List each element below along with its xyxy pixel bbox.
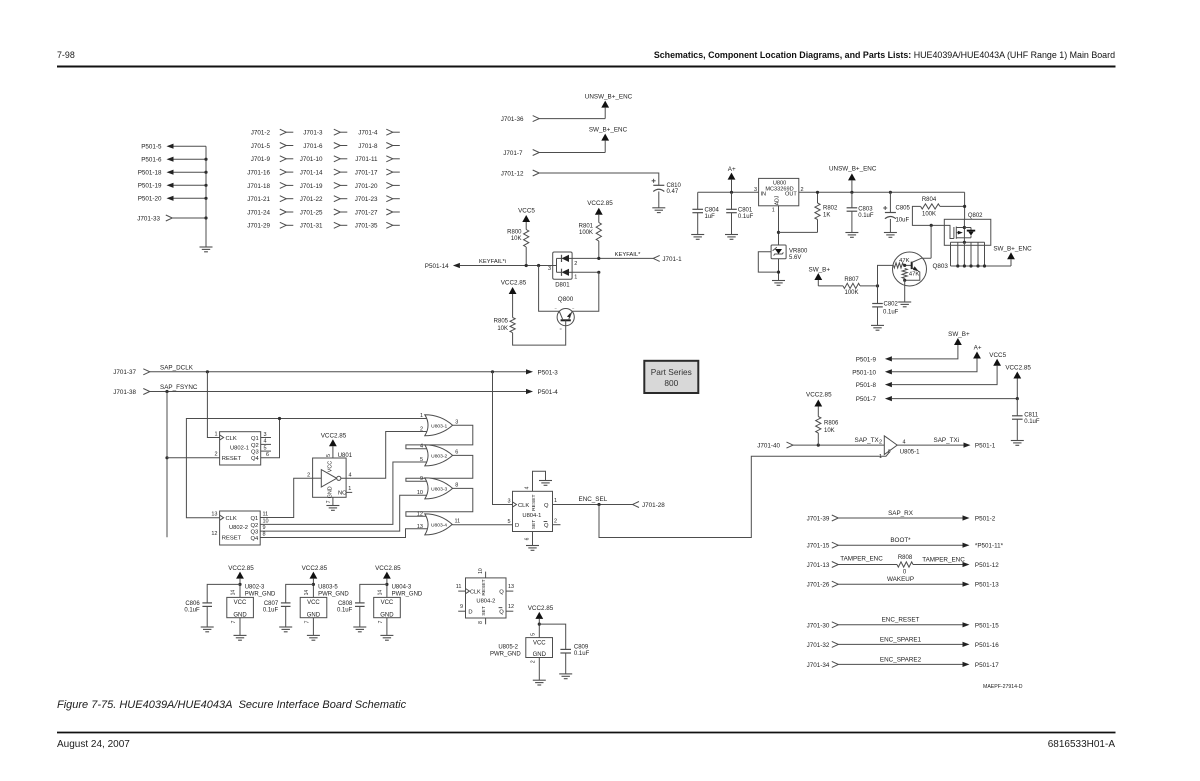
wire CLK riser	[207, 372, 219, 438]
connector J701-35	[355, 222, 400, 229]
wire U801 output to gate U803-1	[341, 432, 428, 479]
net TAMPER_ENC wire left	[838, 555, 897, 564]
ground	[201, 627, 214, 632]
svg-text:P501-8: P501-8	[856, 382, 877, 389]
connector J701-26	[807, 581, 839, 589]
connector J701-34	[807, 661, 839, 669]
svg-text:Q1: Q1	[251, 436, 259, 442]
power VCC2.85 for U803-5	[302, 565, 328, 598]
svg-text:12: 12	[508, 604, 514, 610]
svg-text:J701-18: J701-18	[247, 183, 270, 190]
svg-text:Q: Q	[544, 523, 549, 529]
wire Q3 to gate U803-3	[260, 495, 427, 531]
net ENC_SPARE2 wire	[838, 656, 962, 664]
IC U803-5 PWR_GND	[300, 585, 349, 636]
svg-text:14: 14	[377, 590, 383, 596]
capacitor C802 0.1uF	[872, 286, 898, 326]
svg-text:GND: GND	[233, 612, 247, 618]
connector P501-8 with VCC5	[856, 352, 1007, 389]
svg-text:2: 2	[307, 472, 310, 478]
svg-text:2: 2	[531, 660, 537, 663]
connector J701-15	[807, 542, 839, 550]
svg-text:J701-28: J701-28	[642, 502, 665, 509]
buffer U805-1	[879, 436, 920, 460]
transistor Q800	[555, 296, 576, 332]
svg-text:J701-15: J701-15	[807, 543, 830, 550]
svg-text:RESET: RESET	[222, 536, 242, 542]
ground	[691, 235, 704, 240]
svg-text:P501-13: P501-13	[975, 582, 999, 589]
svg-text:MAEPF-27914-D: MAEPF-27914-D	[983, 684, 1023, 690]
svg-text:3: 3	[455, 420, 458, 426]
svg-text:2: 2	[879, 439, 882, 445]
wire U801 ground pin	[326, 497, 333, 505]
svg-text:R801: R801	[579, 223, 594, 229]
svg-text:7-98: 7-98	[57, 50, 75, 60]
svg-text:J701-40: J701-40	[757, 443, 780, 450]
svg-text:PWR_GND: PWR_GND	[245, 591, 276, 597]
svg-text:5: 5	[420, 457, 423, 463]
power VCC2.85 for U804-3	[375, 565, 401, 598]
power VCC2.85	[806, 392, 832, 417]
svg-text:5: 5	[530, 633, 536, 636]
connector J701-25	[300, 209, 348, 216]
svg-text:0.47: 0.47	[667, 189, 679, 195]
svg-text:R806: R806	[824, 420, 839, 426]
connector P501-1	[964, 443, 996, 450]
svg-text:VCC5: VCC5	[518, 208, 535, 215]
ground	[845, 233, 858, 238]
connector J701-10	[300, 156, 348, 163]
wire ADJ pin	[778, 206, 780, 245]
svg-text:ENC_RESET: ENC_RESET	[882, 617, 920, 624]
junction	[491, 370, 494, 373]
connector P501-20	[138, 196, 206, 203]
svg-text:CLK: CLK	[470, 590, 481, 596]
svg-text:6: 6	[266, 452, 269, 458]
svg-text:U801: U801	[338, 453, 353, 459]
gate U803-3	[417, 476, 458, 499]
svg-text:VCC2.85: VCC2.85	[528, 605, 554, 612]
svg-text:TAMPER_ENC: TAMPER_ENC	[840, 555, 883, 562]
wire gate1 output loop to gate2	[406, 425, 473, 449]
svg-text:J701-6: J701-6	[303, 143, 323, 150]
power VCC5	[518, 208, 535, 230]
power UNSW_B+_ENC	[829, 165, 877, 192]
IC U805-2 PWR_GND	[490, 633, 552, 681]
svg-text:D: D	[515, 523, 519, 529]
power SW_B+_ENC	[993, 246, 1032, 266]
wire emitter of Q800	[513, 326, 566, 345]
connector P501-2	[963, 515, 996, 522]
svg-text:C804: C804	[705, 208, 720, 214]
svg-text:VCC2.85: VCC2.85	[321, 432, 347, 439]
svg-text:VCC2.85: VCC2.85	[501, 280, 527, 287]
wire Q4 feedback	[261, 419, 280, 458]
svg-text:R805: R805	[494, 318, 509, 324]
junction	[538, 623, 541, 626]
junction	[816, 191, 819, 194]
svg-text:D801: D801	[555, 283, 570, 289]
capacitor C801 0.1uF	[726, 192, 753, 234]
svg-text:Figure 7-75. HUE4039A/HUE4043A: Figure 7-75. HUE4039A/HUE4043A Secure In…	[57, 699, 407, 711]
svg-text:14: 14	[304, 590, 310, 596]
svg-text:1uF: 1uF	[705, 214, 716, 220]
connector J701-37	[113, 369, 150, 376]
transistor Q803 with bias resistors	[893, 252, 949, 302]
power SW_B+_ENC	[589, 126, 628, 152]
wire	[525, 247, 527, 266]
ground	[234, 635, 247, 640]
connector J701-32	[807, 641, 839, 649]
junction	[206, 370, 209, 373]
junction	[597, 503, 600, 506]
wire U804-1 reset pin to ground	[525, 471, 546, 491]
svg-text:R807: R807	[844, 277, 859, 283]
svg-text:6: 6	[525, 537, 531, 540]
svg-text:IN: IN	[761, 191, 767, 197]
svg-text:0.1uF: 0.1uF	[574, 651, 590, 657]
svg-text:VCC: VCC	[307, 600, 320, 606]
connector J701-1	[653, 255, 682, 263]
power VCC2.85	[587, 200, 613, 223]
resistor R808 0	[897, 555, 913, 576]
wire	[818, 285, 843, 287]
power SW_B+	[809, 266, 831, 286]
wire gate3 output loop to gate4	[406, 488, 473, 516]
connector P501-19	[138, 183, 206, 190]
svg-text:C806: C806	[185, 601, 200, 607]
svg-text:100K: 100K	[922, 212, 936, 218]
svg-text:VCC2.85: VCC2.85	[228, 565, 254, 572]
svg-text:P501-10: P501-10	[852, 369, 876, 376]
svg-text:VCC2.85: VCC2.85	[806, 392, 832, 399]
wire ENC_SEL route to U805-1 enable	[599, 452, 890, 538]
svg-text:*P501-11*: *P501-11*	[975, 543, 1004, 550]
drawing number MAEPF-27914-D	[983, 684, 1023, 690]
svg-text:GND: GND	[533, 652, 547, 658]
svg-text:GND: GND	[307, 612, 321, 618]
svg-text:KEYFAIL*i: KEYFAIL*i	[479, 259, 506, 265]
svg-text:0.1uF: 0.1uF	[263, 607, 279, 613]
svg-text:U803-4: U803-4	[431, 523, 447, 529]
svg-text:11: 11	[456, 584, 462, 590]
svg-text:Q: Q	[544, 503, 549, 509]
svg-text:0.1uF: 0.1uF	[184, 607, 200, 613]
svg-text:6816533H01-A: 6816533H01-A	[1048, 739, 1116, 750]
capacitor C811 0.1uF	[1012, 399, 1040, 441]
svg-text:OUT: OUT	[785, 191, 797, 197]
svg-text:4: 4	[264, 439, 267, 445]
svg-text:13: 13	[417, 524, 423, 530]
svg-text:4: 4	[349, 472, 352, 478]
svg-text:J701-30: J701-30	[807, 622, 830, 629]
connector J701-16	[247, 169, 293, 176]
connector J701-11	[355, 156, 400, 163]
svg-text:RESET: RESET	[222, 456, 242, 462]
svg-text:C807: C807	[264, 601, 279, 607]
note box Part Series 800	[644, 361, 698, 393]
connector J701-14	[300, 169, 348, 176]
wire R804 left leg	[912, 206, 944, 225]
svg-text:VCC: VCC	[381, 600, 394, 606]
svg-text:7: 7	[305, 620, 311, 623]
IC U801 inverter	[307, 453, 353, 498]
junction	[597, 271, 600, 274]
svg-text:P501-5: P501-5	[141, 144, 162, 151]
wire output SAP_TXi	[897, 437, 963, 445]
svg-text:7: 7	[231, 620, 237, 623]
connector J701-28	[633, 502, 666, 510]
svg-text:ENC_SPARE2: ENC_SPARE2	[880, 656, 922, 663]
gate U803-1	[420, 413, 458, 436]
svg-text:SET: SET	[531, 520, 537, 530]
capacitor C807 0.1uF	[263, 584, 314, 627]
connector J701-31	[300, 222, 348, 229]
wire	[778, 259, 780, 281]
svg-text:U804-3: U804-3	[392, 585, 412, 591]
svg-text:4: 4	[420, 444, 423, 450]
connector J701-39	[807, 515, 839, 523]
svg-text:VCC: VCC	[234, 600, 247, 606]
svg-text:5: 5	[507, 519, 510, 525]
svg-text:P501-14: P501-14	[425, 263, 449, 270]
svg-text:J701-8: J701-8	[358, 143, 378, 150]
svg-text:J701-27: J701-27	[355, 209, 378, 216]
svg-text:U802-1: U802-1	[230, 445, 249, 451]
svg-text:KEYFAIL*: KEYFAIL*	[615, 252, 642, 258]
svg-text:J701-33: J701-33	[137, 215, 160, 222]
wire Q4 to gate U803-4	[260, 529, 427, 538]
svg-text:9: 9	[420, 476, 423, 482]
connector P501-3	[526, 369, 558, 376]
svg-text:VCC2.85: VCC2.85	[375, 565, 401, 572]
wire DCLK riser to U804-1 clock	[493, 372, 513, 505]
wire gate2 output loop to gate3	[406, 455, 473, 481]
connector J701-22	[300, 196, 348, 203]
header rule	[57, 66, 1116, 68]
svg-text:J701-21: J701-21	[247, 196, 270, 203]
capacitor C803 0.1uF	[847, 192, 874, 232]
footer rule	[57, 732, 1116, 734]
svg-text:47K: 47K	[909, 272, 919, 278]
svg-text:J701-7: J701-7	[503, 150, 523, 157]
capacitor C806 0.1uF	[184, 584, 240, 627]
svg-text:11: 11	[455, 519, 461, 525]
net KEYFAIL* wire to J701-1	[572, 252, 653, 258]
junction	[930, 224, 933, 227]
svg-text:11: 11	[263, 512, 269, 518]
svg-text:8: 8	[478, 621, 484, 624]
capacitor C804 1uF	[692, 192, 719, 234]
svg-text:A+: A+	[974, 345, 982, 352]
svg-text:A+: A+	[728, 166, 736, 173]
ground	[353, 627, 366, 632]
IC U802-3 PWR_GND	[227, 585, 276, 636]
svg-text:J701-36: J701-36	[501, 116, 524, 123]
svg-text:Q4: Q4	[251, 456, 260, 462]
resistor R800 10K	[507, 229, 529, 247]
svg-text:Q802: Q802	[968, 213, 983, 219]
svg-text:1: 1	[574, 275, 577, 281]
svg-text:5: 5	[326, 454, 332, 457]
junction	[777, 231, 780, 234]
connector J701-19	[300, 182, 348, 189]
svg-text:Schematics, Component Location: Schematics, Component Location Diagrams,…	[654, 50, 1115, 60]
ground	[884, 233, 897, 238]
connector J701-21	[247, 196, 293, 203]
svg-text:J701-32: J701-32	[807, 642, 830, 649]
regulator U800 MC33269D	[754, 178, 804, 213]
wire ADJ to R802	[779, 231, 818, 233]
connector J701-6	[303, 143, 347, 150]
svg-text:RESET: RESET	[531, 495, 537, 511]
wire U804-1 set pin to ground	[525, 532, 533, 546]
net ENC_RESET wire	[838, 617, 962, 625]
resistor R804 100K	[921, 197, 965, 218]
svg-text:9: 9	[263, 525, 266, 531]
capacitor C808 0.1uF	[337, 584, 387, 627]
svg-text:C802: C802	[884, 301, 899, 307]
svg-text:VCC: VCC	[533, 640, 546, 646]
wire rail down to Q802	[964, 192, 966, 219]
svg-text:U805-2: U805-2	[498, 645, 518, 651]
wire Q802 pins to bus	[951, 242, 1012, 267]
svg-text:P501-1: P501-1	[975, 443, 996, 450]
svg-text:ENC_SPARE1: ENC_SPARE1	[880, 636, 922, 643]
svg-text:GND: GND	[380, 612, 394, 618]
svg-text:SAP_DCLK: SAP_DCLK	[160, 364, 194, 371]
svg-text:C805: C805	[896, 205, 911, 211]
svg-text:VR800: VR800	[789, 248, 808, 254]
connector *P501-11*	[963, 543, 1004, 550]
svg-text:J701-14: J701-14	[300, 170, 323, 177]
svg-text:J701-17: J701-17	[355, 170, 378, 177]
ground	[539, 481, 552, 486]
svg-text:PWR_GND: PWR_GND	[318, 591, 349, 597]
svg-text:10: 10	[417, 490, 423, 496]
connector J701-20	[355, 182, 400, 189]
svg-text:C801: C801	[738, 208, 753, 214]
junction	[1016, 397, 1019, 400]
svg-text:ENC_SEL: ENC_SEL	[579, 496, 608, 503]
svg-text:J701-2: J701-2	[251, 130, 271, 137]
svg-text:August 24, 2007: August 24, 2007	[57, 739, 130, 750]
connector J701-36	[501, 116, 539, 123]
ground	[725, 235, 738, 240]
resistor R802 1K	[815, 192, 838, 232]
wire zener bypass loop	[758, 252, 778, 272]
svg-text:J701-12: J701-12	[501, 170, 524, 177]
wire RESET	[167, 457, 220, 459]
svg-text:J701-1: J701-1	[662, 256, 682, 263]
connector J701-7	[503, 150, 539, 157]
power A+	[728, 166, 736, 192]
capacitor C810 0.47	[652, 179, 682, 208]
svg-text:Q: Q	[499, 590, 504, 596]
page header right	[654, 50, 1115, 60]
wire	[598, 241, 600, 258]
svg-text:J701-23: J701-23	[355, 196, 378, 203]
junction	[525, 264, 528, 267]
svg-text:100K: 100K	[844, 290, 858, 296]
svg-text:P501-12: P501-12	[975, 562, 999, 569]
connector J701-38	[113, 389, 150, 396]
net ENC_SEL wire	[553, 496, 633, 505]
junction	[165, 390, 168, 393]
junction	[312, 583, 315, 586]
ground	[200, 247, 213, 252]
connector P501-10 with A+	[852, 345, 982, 377]
svg-text:SAP_TX: SAP_TX	[855, 437, 880, 444]
svg-text:U804-2: U804-2	[476, 598, 495, 604]
svg-text:1: 1	[420, 413, 423, 419]
wire output rail	[799, 191, 965, 193]
connector P501-7 with VCC2.85	[856, 365, 1032, 403]
connector P501-12	[963, 562, 1000, 569]
svg-text:Part Series: Part Series	[651, 367, 692, 377]
svg-text:R808: R808	[898, 555, 913, 561]
svg-text:P501-17: P501-17	[975, 662, 999, 669]
svg-text:4: 4	[903, 439, 906, 445]
svg-text:J701-11: J701-11	[355, 156, 378, 163]
svg-text:RESET: RESET	[481, 579, 487, 595]
svg-text:14: 14	[231, 590, 237, 596]
svg-text:7: 7	[326, 500, 332, 503]
footer date	[57, 739, 130, 750]
svg-text:47K: 47K	[899, 258, 909, 264]
wire input rail	[698, 191, 759, 193]
ground	[307, 635, 320, 640]
svg-text:J701-9: J701-9	[251, 156, 271, 163]
connector P501-17	[963, 662, 1000, 669]
power VCC2.85 for U802-3	[228, 565, 254, 598]
svg-text:R804: R804	[922, 197, 937, 203]
junction	[537, 264, 540, 267]
IC U802-2	[211, 511, 268, 545]
svg-text:2: 2	[554, 518, 557, 524]
svg-text:3: 3	[754, 187, 757, 193]
ground	[652, 208, 665, 213]
svg-text:P501-19: P501-19	[138, 183, 162, 190]
svg-text:10K: 10K	[497, 326, 508, 332]
mosfet pack Q802	[944, 213, 991, 245]
svg-text:C808: C808	[338, 601, 353, 607]
ground	[772, 281, 785, 286]
connector J701-40	[757, 442, 793, 450]
svg-text:C809: C809	[574, 644, 589, 650]
svg-text:R800: R800	[507, 229, 522, 235]
svg-text:J701-24: J701-24	[247, 209, 270, 216]
connector J701-4	[358, 129, 400, 136]
svg-text:6: 6	[455, 450, 458, 456]
connector P501-15	[963, 622, 1000, 629]
svg-text:VCC2.85: VCC2.85	[1005, 365, 1031, 372]
svg-text:J701-4: J701-4	[358, 130, 378, 137]
svg-text:13: 13	[211, 512, 217, 518]
connector P501-9 with SW_B+	[856, 331, 970, 363]
ground	[871, 325, 884, 330]
svg-text:P501-6: P501-6	[141, 157, 162, 164]
svg-text:VCC2.85: VCC2.85	[587, 200, 613, 207]
svg-text:GND: GND	[328, 486, 334, 498]
svg-text:13: 13	[508, 584, 514, 590]
connector J701-27	[355, 209, 400, 216]
net WAKEUP wire	[838, 576, 962, 584]
net BOOT* wire	[838, 537, 962, 545]
svg-text:SW_B+_ENC: SW_B+_ENC	[589, 126, 628, 133]
svg-text:CLK: CLK	[226, 516, 237, 522]
